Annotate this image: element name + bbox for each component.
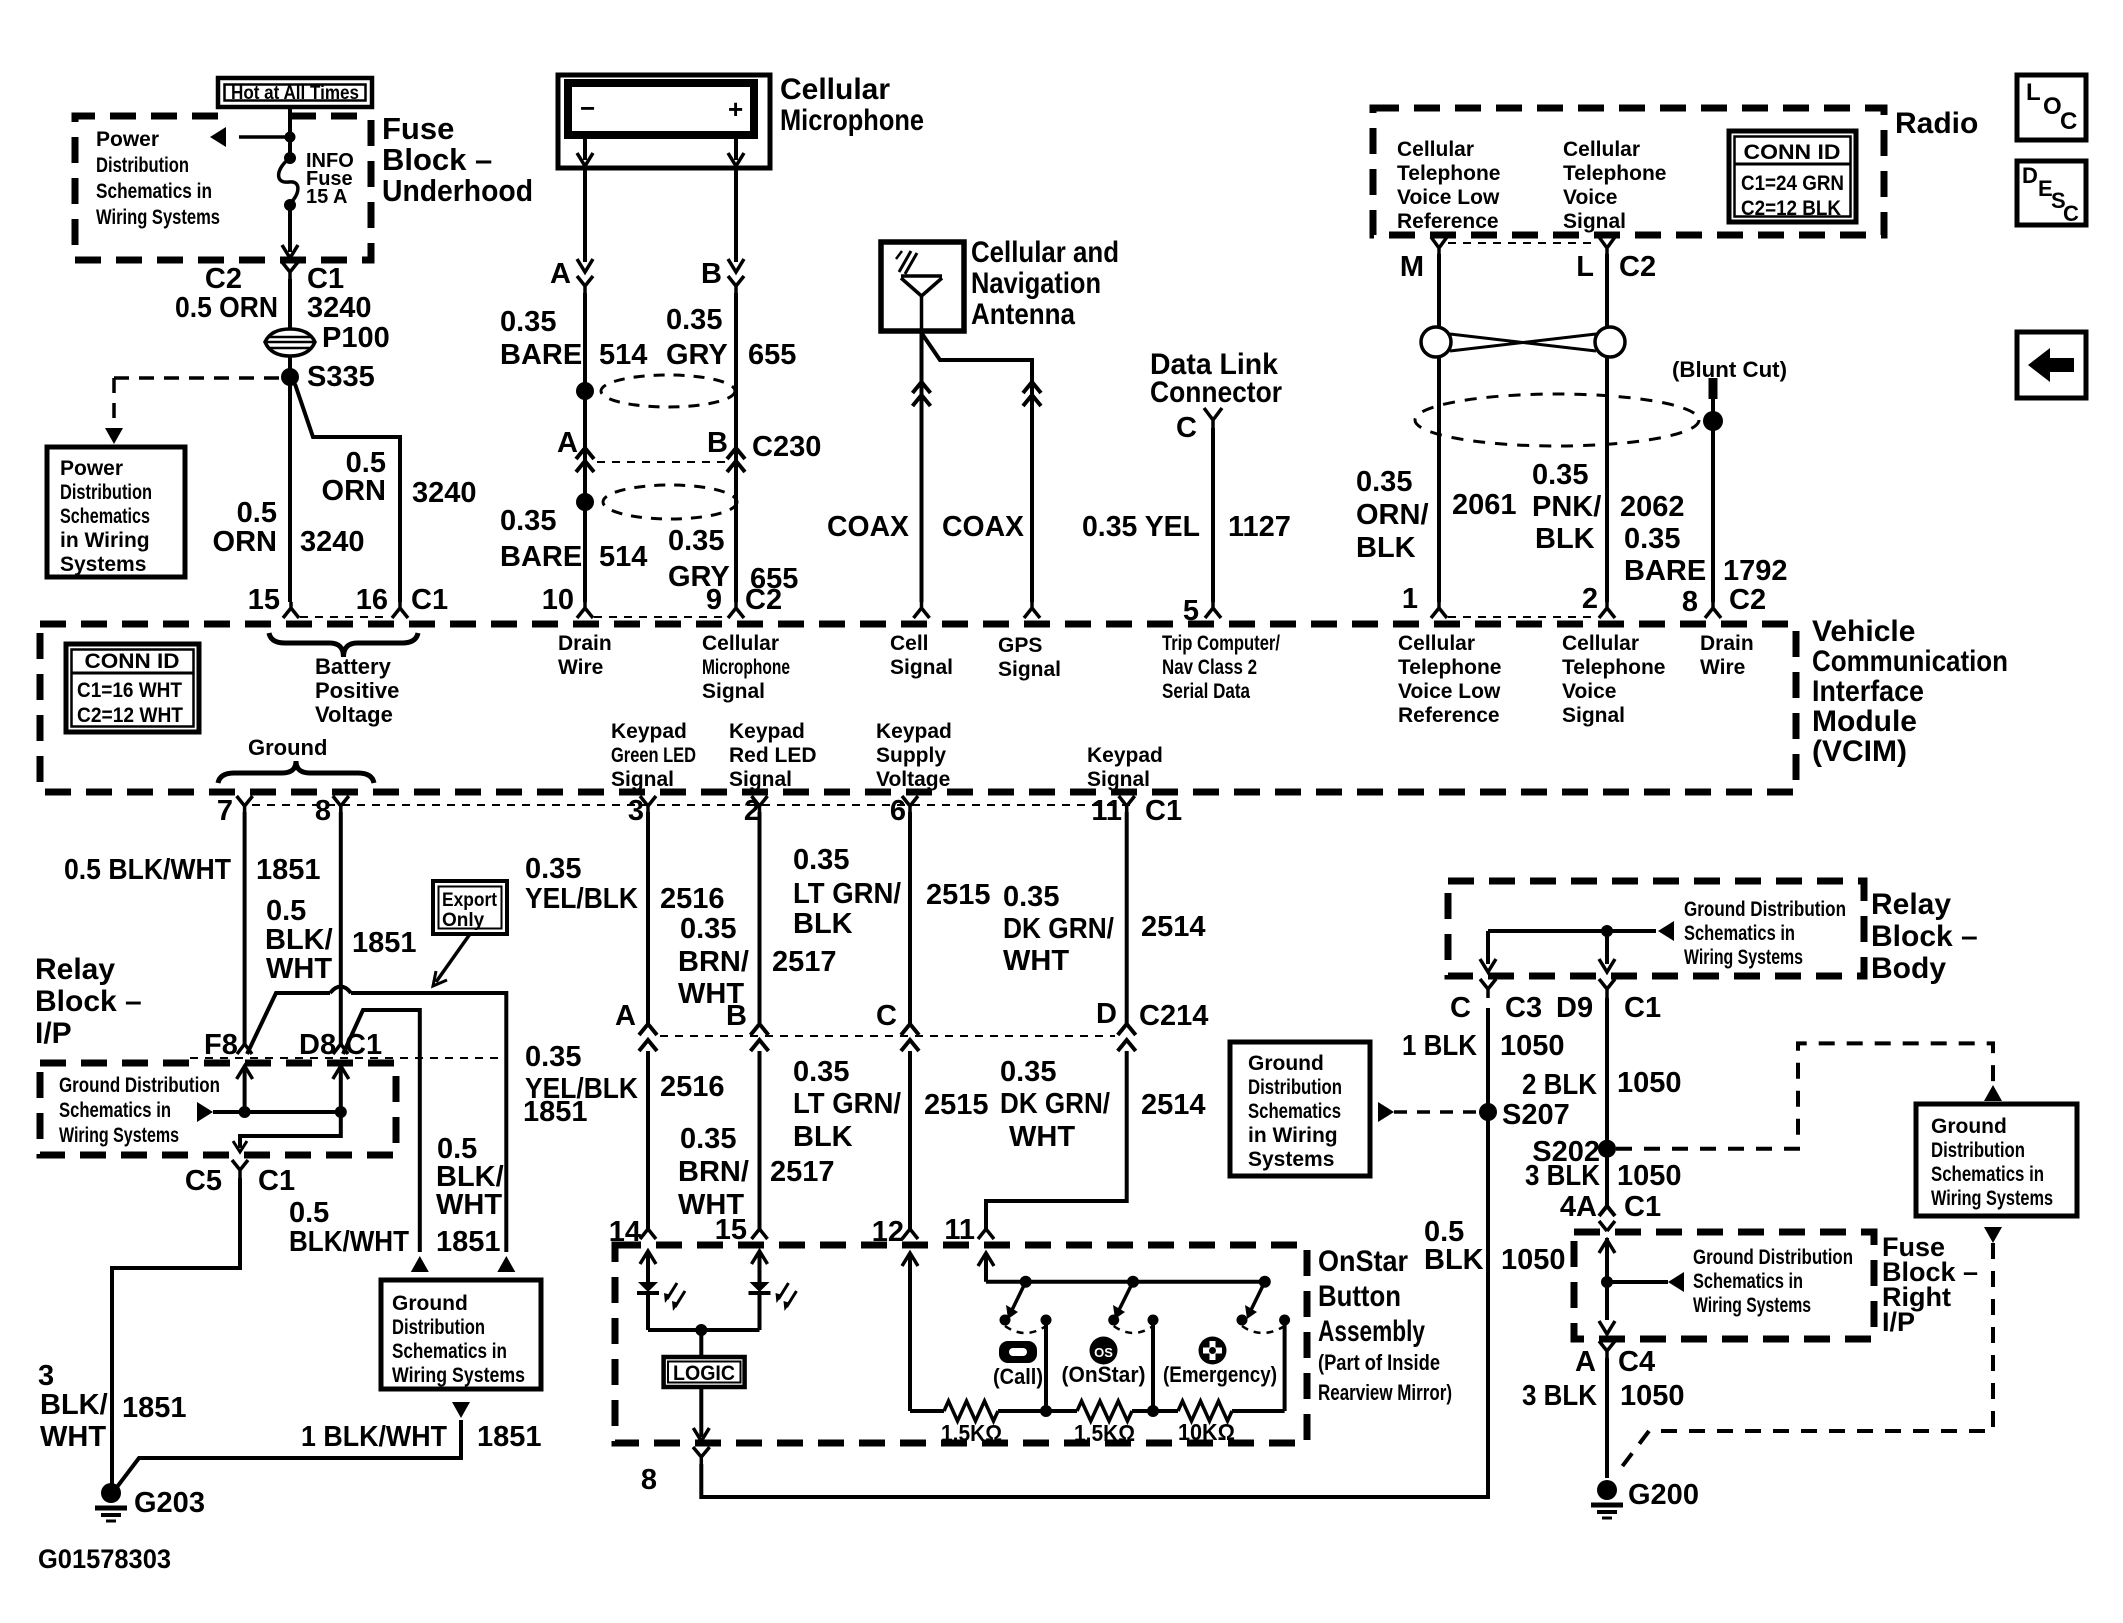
svg-text:S335: S335: [307, 361, 375, 393]
wire S335 down to pin 15: [288, 377, 292, 602]
svg-text:Wiring Systems: Wiring Systems: [96, 206, 220, 229]
svg-text:Telephone: Telephone: [1562, 656, 1665, 679]
svg-text:655: 655: [748, 339, 796, 371]
svg-text:10: 10: [542, 584, 574, 616]
onstar button icon: [1090, 1337, 1118, 1365]
svg-text:Communication: Communication: [1812, 645, 2008, 678]
keypad signal wire to switch bus: [984, 1253, 988, 1282]
svg-text:2515: 2515: [924, 1089, 989, 1121]
svg-text:Relay: Relay: [1871, 888, 1951, 921]
svg-text:D: D: [2022, 163, 2038, 188]
svg-text:A: A: [1575, 1346, 1596, 1378]
svg-text:B: B: [726, 1000, 747, 1032]
svg-text:Signal: Signal: [1563, 210, 1626, 233]
svg-text:Distribution: Distribution: [1248, 1076, 1342, 1099]
svg-text:ORN: ORN: [322, 475, 386, 507]
svg-text:0.35: 0.35: [1532, 459, 1588, 491]
svg-text:0.5: 0.5: [237, 497, 277, 529]
svg-text:BLK: BLK: [793, 1121, 853, 1153]
svg-text:0.35: 0.35: [1356, 466, 1412, 498]
svg-text:(Call): (Call): [993, 1364, 1043, 1389]
svg-text:C1=16 WHT: C1=16 WHT: [77, 679, 182, 702]
svg-text:Schematics in: Schematics in: [392, 1340, 507, 1363]
svg-text:Schematics in: Schematics in: [1684, 922, 1795, 945]
svg-text:DK GRN/: DK GRN/: [1000, 1088, 1110, 1120]
svg-text:C: C: [1176, 412, 1197, 444]
svg-text:1050: 1050: [1500, 1030, 1565, 1062]
svg-text:1.5KΩ: 1.5KΩ: [941, 1420, 1002, 1446]
svg-text:Reference: Reference: [1397, 210, 1499, 233]
mic wires with arrows: [583, 135, 587, 160]
arrows up into F8/D8: [243, 1066, 247, 1112]
svg-text:0.35: 0.35: [1003, 881, 1059, 913]
wire: fuse to C2/C1 connector: [288, 205, 292, 252]
svg-text:Signal: Signal: [1562, 704, 1625, 727]
big dashed twist ellipse: [1415, 394, 1699, 446]
svg-text:0.35: 0.35: [680, 1123, 736, 1155]
svg-text:GPS: GPS: [998, 634, 1042, 657]
svg-text:OnStar: OnStar: [1318, 1245, 1408, 1278]
svg-text:4A: 4A: [1560, 1191, 1597, 1223]
svg-text:PNK/: PNK/: [1532, 491, 1601, 523]
pin 8 at OnStar bottom: [693, 1447, 710, 1464]
jog wire from D8 to second vertical: [343, 1010, 420, 1252]
svg-text:0.35: 0.35: [1624, 523, 1680, 555]
svg-text:A: A: [557, 427, 578, 459]
ground distribution schematics solid box (bottom): [381, 1280, 541, 1389]
svg-text:C2: C2: [1729, 584, 1766, 616]
wire B segment: [734, 293, 738, 602]
svg-text:Voice: Voice: [1563, 186, 1617, 209]
wire hop over pin8 wire: [330, 987, 351, 994]
C5 / C1 pin: [232, 1160, 248, 1178]
svg-text:(Emergency): (Emergency): [1163, 1362, 1277, 1387]
Export Only box with arrow: [433, 881, 507, 934]
svg-text:BRN/: BRN/: [678, 1156, 749, 1188]
gps signal wire branch: [922, 333, 1033, 602]
radio pins M / L / C2: [1431, 237, 1447, 254]
svg-text:BLK: BLK: [1424, 1244, 1484, 1276]
svg-text:BRN/: BRN/: [678, 946, 749, 978]
jog wire from F8 to export-only vertical: [247, 993, 330, 1054]
svg-text:Voltage: Voltage: [876, 768, 950, 791]
pin 8 wire to right riser: [701, 1008, 1488, 1497]
svg-text:Schematics in: Schematics in: [1931, 1163, 2044, 1186]
svg-text:0.35: 0.35: [793, 1056, 849, 1088]
svg-text:1851: 1851: [436, 1226, 501, 1258]
svg-text:C: C: [2063, 201, 2079, 226]
svg-text:C: C: [876, 1000, 897, 1032]
svg-text:Navigation: Navigation: [971, 267, 1101, 300]
svg-text:C1: C1: [345, 1029, 382, 1061]
twisted pair ellipse 1 with drain splice: [601, 375, 735, 407]
svg-text:C2=12 WHT: C2=12 WHT: [77, 704, 183, 727]
svg-text:2515: 2515: [926, 879, 991, 911]
svg-text:2516: 2516: [660, 1071, 725, 1103]
svg-text:CONN ID: CONN ID: [85, 650, 180, 673]
svg-text:BLK/: BLK/: [40, 1389, 108, 1421]
Fuse Block - Underhood dashed box: [75, 116, 372, 260]
svg-text:0.35: 0.35: [668, 525, 724, 557]
svg-text:C1: C1: [1624, 1191, 1661, 1223]
svg-text:L: L: [1576, 251, 1594, 283]
arrows into box from 0.5 BLK/WHT wires: [411, 1256, 429, 1272]
svg-text:514: 514: [599, 339, 647, 371]
svg-text:Schematics in: Schematics in: [1693, 1270, 1803, 1293]
wire C5 down, jog left, to G203: [112, 1178, 240, 1488]
resistor 1.5K ohm (call): [944, 1401, 998, 1421]
supply voltage wire to resistor chain: [908, 1253, 912, 1411]
svg-text:1 BLK/WHT: 1 BLK/WHT: [301, 1421, 447, 1453]
svg-text:A: A: [615, 1000, 636, 1032]
resistor 1.5K ohm (onstar): [1077, 1401, 1132, 1421]
svg-text:Cellular: Cellular: [1563, 138, 1640, 161]
svg-text:1792: 1792: [1723, 555, 1788, 587]
svg-text:Distribution: Distribution: [1931, 1139, 2025, 1162]
svg-text:Schematics: Schematics: [1248, 1100, 1341, 1123]
svg-text:0.35: 0.35: [500, 505, 556, 537]
svg-text:2062: 2062: [1620, 491, 1685, 523]
svg-text:Signal: Signal: [998, 658, 1061, 681]
LED red: [752, 1251, 768, 1264]
svg-text:O: O: [2043, 93, 2062, 120]
svg-text:Wiring Systems: Wiring Systems: [1931, 1187, 2053, 1210]
svg-text:Drain: Drain: [558, 632, 612, 655]
svg-text:Cell: Cell: [890, 632, 929, 655]
svg-text:Serial Data: Serial Data: [1162, 680, 1250, 703]
ground G203: [101, 1483, 121, 1503]
svg-text:B: B: [701, 258, 722, 290]
svg-text:2514: 2514: [1141, 911, 1206, 943]
fuse INFO 15A: [284, 152, 296, 164]
svg-text:Fuse: Fuse: [382, 111, 454, 146]
connector C2/C1 pins: [282, 262, 298, 280]
svg-text:F8: F8: [204, 1029, 238, 1061]
svg-text:BLK: BLK: [1356, 532, 1416, 564]
svg-text:G01578303: G01578303: [38, 1544, 171, 1574]
svg-text:3 BLK: 3 BLK: [1525, 1160, 1600, 1192]
svg-text:LT GRN/: LT GRN/: [793, 1088, 901, 1120]
svg-text:Cellular: Cellular: [780, 73, 890, 106]
dashed wire from ground distribution box to S207: [1378, 1102, 1394, 1122]
svg-text:Systems: Systems: [1248, 1148, 1334, 1171]
svg-text:1851: 1851: [256, 854, 321, 886]
svg-text:3 BLK: 3 BLK: [1522, 1380, 1597, 1412]
inline connectors on coax: [913, 382, 931, 393]
svg-text:2516: 2516: [660, 883, 725, 915]
call button icon: [999, 1341, 1037, 1363]
svg-text:COAX: COAX: [827, 511, 910, 543]
svg-text:C1: C1: [1145, 795, 1182, 827]
svg-text:Microphone: Microphone: [780, 104, 924, 137]
svg-text:Cellular: Cellular: [1397, 138, 1474, 161]
Power Distribution Schematics solid box: [47, 447, 185, 577]
svg-text:Red LED: Red LED: [729, 744, 817, 767]
svg-text:8: 8: [315, 795, 331, 827]
svg-text:B: B: [707, 427, 728, 459]
svg-text:C5: C5: [185, 1165, 222, 1197]
LOGIC box: [664, 1357, 745, 1387]
svg-text:Antenna: Antenna: [971, 298, 1075, 331]
A / C4 pin: [1599, 1341, 1615, 1358]
svg-text:0.35 YEL: 0.35 YEL: [1082, 511, 1200, 543]
wire 1 BLK/WHT to ground distribution box: [117, 1420, 461, 1487]
DESC button: [2017, 161, 2086, 225]
svg-text:0.35: 0.35: [680, 913, 736, 945]
svg-text:Radio: Radio: [1895, 107, 1978, 140]
svg-text:Signal: Signal: [729, 768, 792, 791]
svg-text:Ground Distribution: Ground Distribution: [59, 1074, 220, 1097]
svg-text:0.5 BLK/WHT: 0.5 BLK/WHT: [64, 854, 231, 886]
dashed path S202 to right ground reference: [1616, 1043, 1993, 1148]
svg-text:Voltage: Voltage: [315, 702, 393, 727]
svg-text:Schematics in: Schematics in: [59, 1099, 171, 1122]
wire S335 branch to pin 16: [295, 384, 400, 602]
internal ground bus: [197, 1102, 213, 1122]
svg-text:WHT: WHT: [266, 953, 332, 985]
svg-text:Wire: Wire: [1700, 656, 1745, 679]
svg-text:Voice Low: Voice Low: [1397, 186, 1500, 209]
svg-text:LOGIC: LOGIC: [673, 1362, 735, 1385]
switch common dots: [1020, 1276, 1032, 1288]
svg-text:G203: G203: [134, 1487, 205, 1519]
svg-text:C230: C230: [752, 431, 821, 463]
ground distribution solid box (S207): [1230, 1042, 1370, 1176]
svg-text:Rearview Mirror): Rearview Mirror): [1318, 1380, 1452, 1405]
svg-text:YEL/BLK: YEL/BLK: [525, 883, 638, 915]
svg-text:Voice Low: Voice Low: [1398, 680, 1501, 703]
svg-text:15 A: 15 A: [306, 186, 348, 208]
dashed wire from S335 to left reference: [114, 376, 281, 380]
resistor chain: [910, 1409, 944, 1413]
svg-text:Wiring Systems: Wiring Systems: [1693, 1294, 1811, 1317]
svg-text:0.35: 0.35: [666, 304, 722, 336]
wire to G200: [1605, 1358, 1609, 1478]
svg-text:Positive: Positive: [315, 678, 399, 703]
junction at fuse feed: [285, 132, 296, 143]
cell signal wire: [920, 331, 924, 602]
LOC button: [2017, 75, 2086, 140]
LED common to logic: [648, 1328, 760, 1332]
wire D9 down: [1605, 998, 1609, 1206]
keypad wires from VCIM to C214: [646, 812, 650, 1024]
svg-text:Signal: Signal: [1087, 768, 1150, 791]
svg-text:in Wiring: in Wiring: [1248, 1124, 1338, 1147]
svg-text:C1: C1: [258, 1165, 295, 1197]
relay block body dashed box: [1448, 881, 1864, 976]
svg-text:GRY: GRY: [666, 339, 728, 371]
svg-text:OS: OS: [1094, 1345, 1113, 1360]
wire: Hot at All Times down to fuse: [288, 107, 292, 158]
svg-text:Telephone: Telephone: [1397, 162, 1500, 185]
svg-text:Only: Only: [442, 910, 485, 931]
dashed path down to G200: [1621, 1243, 1993, 1468]
svg-text:Connector: Connector: [1150, 376, 1282, 409]
keypad wires from C214 down: [646, 1051, 650, 1232]
svg-text:0.35: 0.35: [525, 1041, 581, 1073]
svg-text:1851: 1851: [122, 1392, 187, 1424]
svg-text:Microphone: Microphone: [702, 656, 790, 679]
svg-text:8: 8: [1682, 586, 1698, 618]
svg-text:C2: C2: [745, 584, 782, 616]
svg-text:D: D: [1096, 998, 1117, 1030]
svg-text:(OnStar): (OnStar): [1062, 1362, 1146, 1387]
svg-text:WHT: WHT: [1003, 945, 1069, 977]
svg-text:C1=24 GRN: C1=24 GRN: [1741, 172, 1844, 195]
svg-text:11: 11: [944, 1214, 975, 1246]
svg-text:C1: C1: [411, 584, 448, 616]
svg-text:1 BLK: 1 BLK: [1402, 1030, 1477, 1062]
svg-text:(Part of Inside: (Part of Inside: [1318, 1350, 1440, 1375]
battery positive voltage brace and label: [269, 633, 418, 657]
svg-text:1127: 1127: [1228, 511, 1291, 543]
svg-text:Cellular: Cellular: [702, 632, 779, 655]
left arrow to Power Distribution reference: [239, 135, 290, 139]
svg-text:C: C: [1450, 992, 1471, 1024]
svg-text:BARE: BARE: [1624, 555, 1706, 587]
ground distribution solid box (right): [1916, 1104, 2077, 1216]
wire pin7 down to F8: [243, 812, 247, 1044]
svg-text:C1: C1: [307, 263, 344, 295]
svg-text:3240: 3240: [300, 526, 365, 558]
cellular and navigation antenna box: [881, 242, 964, 331]
svg-text:BARE: BARE: [500, 339, 582, 371]
svg-text:0.35: 0.35: [1000, 1056, 1056, 1088]
relay block I/P ground distribution dashed box: [40, 1063, 396, 1155]
svg-text:0.5: 0.5: [289, 1197, 329, 1229]
twisted pair ellipse 2 with drain splice: [603, 485, 737, 519]
svg-text:I/P: I/P: [1882, 1307, 1915, 1337]
svg-text:Distribution: Distribution: [60, 481, 152, 504]
svg-text:0.35: 0.35: [793, 844, 849, 876]
wire L down: [1605, 254, 1609, 602]
pins cell / gps: [914, 602, 930, 618]
radio dashed box: [1373, 108, 1884, 235]
radio CONN ID box: [1729, 131, 1856, 222]
svg-text:C2: C2: [205, 263, 242, 295]
svg-text:Systems: Systems: [60, 553, 146, 576]
svg-text:Ground: Ground: [248, 735, 327, 760]
svg-text:Keypad: Keypad: [729, 720, 805, 743]
switch 1 (Call): [1012, 1282, 1026, 1310]
svg-text:514: 514: [599, 541, 647, 573]
svg-text:2: 2: [1582, 583, 1598, 615]
svg-text:Vehicle: Vehicle: [1812, 615, 1915, 648]
switch 3 (Emergency): [1251, 1282, 1265, 1310]
VCIM CONN ID box: [66, 644, 199, 732]
svg-text:LT GRN/: LT GRN/: [793, 878, 901, 910]
svg-text:Hot at All Times: Hot at All Times: [231, 83, 359, 104]
svg-text:BLK: BLK: [793, 908, 853, 940]
svg-text:I/P: I/P: [35, 1017, 72, 1050]
svg-text:1050: 1050: [1617, 1160, 1682, 1192]
svg-text:DK GRN/: DK GRN/: [1003, 913, 1114, 945]
svg-text:Ground: Ground: [1248, 1052, 1324, 1075]
svg-text:1050: 1050: [1501, 1244, 1566, 1276]
svg-text:C: C: [2060, 108, 2077, 135]
svg-text:BARE: BARE: [500, 541, 582, 573]
svg-text:WHT: WHT: [436, 1189, 502, 1221]
keypad signal wire jog: [986, 1051, 1127, 1232]
svg-text:(Blunt Cut): (Blunt Cut): [1672, 357, 1787, 382]
svg-text:Keypad: Keypad: [1087, 744, 1163, 767]
wire pin8 down to D8: [339, 812, 343, 1044]
svg-text:Export: Export: [442, 890, 498, 911]
svg-text:Interface: Interface: [1812, 675, 1924, 708]
svg-text:Signal: Signal: [890, 656, 953, 679]
svg-text:Wire: Wire: [558, 656, 603, 679]
svg-text:Ground Distribution: Ground Distribution: [1684, 898, 1846, 921]
svg-text:1851: 1851: [477, 1421, 542, 1453]
svg-text:0.35: 0.35: [525, 853, 581, 885]
svg-text:0.5: 0.5: [266, 895, 306, 927]
svg-text:Underhood: Underhood: [382, 173, 533, 208]
svg-text:C1: C1: [1624, 992, 1661, 1024]
drain wire splice at shield: [1703, 411, 1723, 431]
svg-text:Power: Power: [96, 128, 159, 151]
svg-text:Distribution: Distribution: [392, 1316, 485, 1339]
arrow into Power Distribution box: [105, 428, 123, 444]
pins C C3 / D9 C1: [1480, 979, 1496, 998]
svg-text:ORN: ORN: [213, 526, 277, 558]
switch 2 (OnStar): [1119, 1282, 1133, 1310]
svg-text:WHT: WHT: [1009, 1121, 1075, 1153]
svg-text:C3: C3: [1505, 992, 1542, 1024]
svg-text:Supply: Supply: [876, 744, 946, 767]
svg-text:+: +: [728, 94, 743, 124]
svg-text:Ground Distribution: Ground Distribution: [1693, 1246, 1853, 1269]
svg-text:M: M: [1400, 251, 1424, 283]
svg-text:D8: D8: [299, 1029, 336, 1061]
svg-text:L: L: [2026, 79, 2041, 106]
svg-text:8: 8: [641, 1464, 657, 1496]
svg-text:WHT: WHT: [40, 1421, 106, 1453]
svg-text:C4: C4: [1618, 1346, 1655, 1378]
Hot at All Times box: [218, 78, 372, 107]
splice grommet P100: [265, 329, 315, 356]
svg-text:Relay: Relay: [35, 953, 115, 986]
svg-text:1.5KΩ: 1.5KΩ: [1074, 1420, 1135, 1446]
twisted pair bowtie symbol: [1421, 327, 1451, 357]
wire A segment: [583, 293, 587, 602]
fuse block right I/P dashed box: [1574, 1232, 1874, 1339]
LED green: [640, 1251, 656, 1264]
splice S335: [281, 368, 299, 386]
svg-text:Button: Button: [1318, 1280, 1401, 1313]
splice S207: [1479, 1103, 1497, 1121]
svg-text:2517: 2517: [772, 946, 837, 978]
svg-text:Voice: Voice: [1562, 680, 1616, 703]
svg-text:P100: P100: [322, 322, 390, 354]
svg-text:Schematics: Schematics: [60, 505, 150, 528]
svg-text:BLK/WHT: BLK/WHT: [289, 1226, 409, 1258]
svg-text:2517: 2517: [770, 1156, 835, 1188]
svg-text:Telephone: Telephone: [1563, 162, 1666, 185]
svg-text:A: A: [550, 258, 571, 290]
svg-text:9: 9: [706, 584, 722, 616]
svg-text:Body: Body: [1871, 952, 1946, 985]
OnStar button assembly dashed box: [615, 1245, 1307, 1443]
svg-text:Signal: Signal: [702, 680, 765, 703]
svg-text:COAX: COAX: [942, 511, 1025, 543]
svg-text:Block –: Block –: [1871, 920, 1978, 953]
cellular microphone box: [558, 75, 770, 168]
svg-text:Green LED: Green LED: [611, 744, 696, 767]
svg-text:2514: 2514: [1141, 1089, 1206, 1121]
svg-text:Cellular: Cellular: [1398, 632, 1475, 655]
svg-text:1050: 1050: [1617, 1067, 1682, 1099]
svg-text:Wiring Systems: Wiring Systems: [1684, 946, 1803, 969]
